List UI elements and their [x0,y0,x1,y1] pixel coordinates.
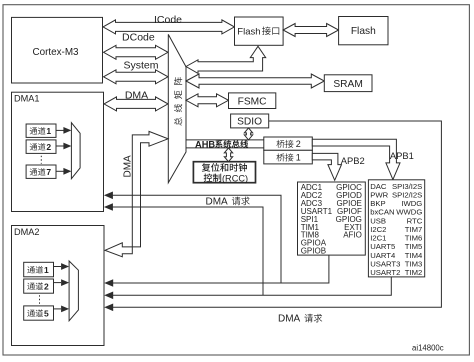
svg-text:2: 2 [44,281,49,291]
DMA1 channel 2 (通道2) [26,140,56,154]
dotted separator DMA2 [39,295,41,304]
svg-text:7: 7 [46,167,51,177]
AHB system bus (double line) [186,140,264,148]
bus matrix [168,34,186,182]
svg-text:DMA2: DMA2 [14,227,40,237]
Cortex-M3 block [12,17,103,83]
DCode bus arrow [104,45,169,59]
svg-text:ICode: ICode [154,14,182,26]
svg-text:Flash: Flash [237,26,260,37]
APB1 peripherals block [368,180,424,277]
Flash interface block (Flash 接口) [235,17,284,45]
bridge 1 block [264,150,313,164]
svg-text:GPIOB: GPIOB [301,247,326,256]
svg-text:APB2: APB2 [341,155,365,166]
svg-text:System: System [123,59,158,71]
SRAM arrow [186,74,324,88]
DMA request line 1 into DMA1 [112,195,281,283]
request line C (SDIO -> DMA) [112,121,441,307]
svg-text:DMA: DMA [123,155,134,178]
svg-text:DCode: DCode [122,32,155,44]
svg-text:TIM5: TIM5 [405,242,423,251]
svg-text:APB1: APB1 [390,150,414,161]
bridge 2 block [264,137,313,150]
DMA2 channel 5 (通道5) [24,306,54,320]
DMA1 bus arrow [104,97,168,111]
System bus arrow [104,70,169,84]
svg-text:1: 1 [46,126,51,136]
svg-text:BKP: BKP [370,199,385,208]
elbow arrow: bus matrix to Flash interface [186,46,266,73]
DMA1 block [12,92,104,211]
DMA1 channel arrows [56,129,64,131]
svg-text:IWDG: IWDG [401,199,422,208]
svg-text:1: 1 [44,265,49,275]
DMA request line 2 into DMA1 [112,207,263,295]
dotted separator DMA1 [40,156,42,164]
svg-text:(RCC): (RCC) [222,173,248,183]
svg-text:TIM2: TIM2 [405,268,423,277]
svg-text:SDIO: SDIO [237,116,262,127]
DMA2 elbow arrow to bus matrix [105,131,168,256]
ICode bus arrow [103,20,234,34]
request line B (APB1 -> DMA) [112,277,391,295]
APB2 peripherals block [298,182,366,255]
DMA1 channel 7 (通道7) [26,165,56,178]
DMA1 channel 1 (通道1) [26,124,56,137]
svg-text:DMA1: DMA1 [14,93,40,103]
Flash block [339,17,388,45]
Flash interface <-> Flash arrow [283,24,339,37]
svg-text:2: 2 [46,142,51,152]
svg-text:SRAM: SRAM [333,79,362,90]
svg-text:Flash: Flash [351,26,376,37]
DMA2 channel arrows [54,266,62,268]
bus matrix label 总线矩阵 [174,77,182,125]
FSMC arrow [186,94,229,107]
svg-text:UART5: UART5 [370,242,395,251]
DMA2 channel 1 (通道1) [24,262,54,277]
DMA2 block [12,226,105,346]
svg-text:5: 5 [44,308,49,318]
request line A (APB2 -> DMA) [112,255,329,283]
DMA2 funnel [69,261,78,321]
SRAM block [324,75,372,92]
SDIO block [231,114,269,128]
svg-text:Cortex-M3: Cortex-M3 [32,47,79,58]
svg-text:FSMC: FSMC [238,96,267,107]
DMA1 funnel [71,123,80,179]
DMA2 channel 2 (通道2) [24,279,54,293]
svg-text:2: 2 [296,139,301,149]
bridge2 -> APB1 hollow connector [312,139,400,179]
svg-text:USART2: USART2 [370,268,400,277]
AHB <-> RCC mini arrow [224,148,232,162]
svg-text:ai14800c: ai14800c [412,343,444,352]
svg-text:AFIO: AFIO [343,231,362,240]
svg-text:DMA: DMA [206,196,229,207]
svg-text:DMA: DMA [278,314,301,325]
SDIO <-> AHB mini arrow [244,128,252,140]
svg-text:DMA: DMA [125,89,148,101]
svg-text:AHB: AHB [195,139,215,149]
bridge1 -> APB2 hollow connector [312,153,341,180]
RCC block 复位和时钟控制 [193,162,255,183]
svg-text:1: 1 [296,153,301,163]
FSMC block [229,93,276,109]
